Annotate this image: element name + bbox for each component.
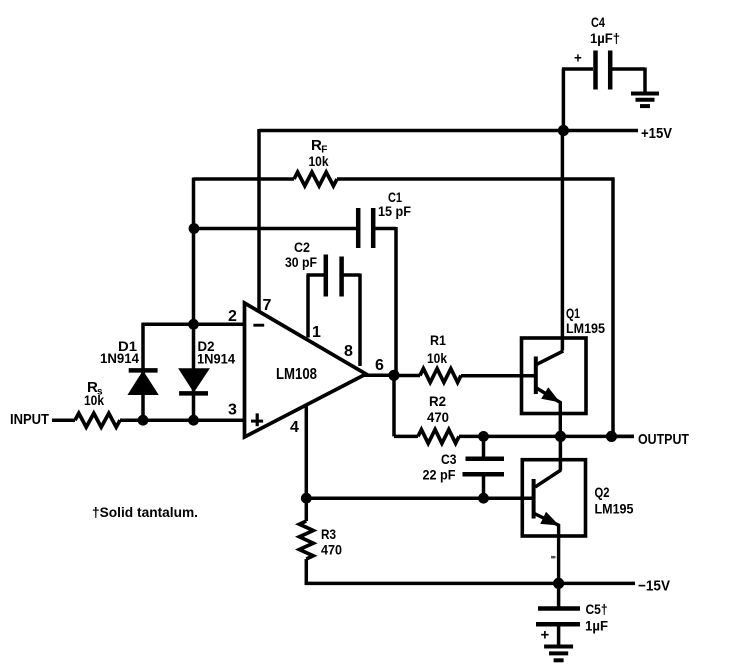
svg-text:22 pF: 22 pF	[423, 467, 456, 483]
junction C3 / pin 4 line	[478, 493, 489, 504]
svg-text:LM195: LM195	[595, 501, 634, 517]
svg-text:6: 6	[375, 357, 384, 374]
wire Q1 emitter	[537, 388, 561, 436]
label R2	[429, 393, 446, 409]
note solid tantalum	[92, 504, 198, 520]
svg-text:Q2: Q2	[595, 484, 610, 500]
wire op-amp output lead	[363, 374, 394, 378]
wire R2 left lead	[394, 435, 418, 439]
value 1N914 of D2	[197, 351, 235, 367]
wire pin 3 rail	[120, 418, 244, 422]
value 1µF† of C4	[590, 30, 620, 46]
capacitor C5	[536, 609, 580, 625]
wire C1 left lead	[194, 227, 356, 231]
capacitor C4	[596, 51, 611, 90]
svg-text:+15V: +15V	[641, 125, 672, 142]
svg-text:LM195: LM195	[566, 320, 605, 336]
label D2	[198, 338, 215, 354]
wire pin 2 rail	[142, 323, 245, 327]
net -15V label	[638, 578, 670, 595]
wire C5 top lead	[557, 583, 561, 607]
label Q1	[566, 305, 580, 321]
capacitor C2	[326, 255, 342, 297]
wire pin 8 lead	[344, 274, 361, 367]
label RF	[311, 137, 327, 156]
svg-text:470: 470	[321, 542, 342, 558]
wire inverting node vertical	[192, 178, 196, 326]
label OUTPUT	[638, 431, 689, 448]
svg-text:C3: C3	[441, 451, 457, 467]
wire +15V supply rail	[259, 129, 638, 133]
capacitor C1	[358, 208, 373, 248]
transistor Q1	[522, 338, 587, 414]
pin 7 label	[263, 297, 272, 314]
wire input lead	[52, 418, 75, 422]
wire RF left segment	[194, 177, 294, 181]
wire pin 1 lead	[307, 275, 325, 338]
svg-text:R3: R3	[321, 526, 336, 542]
wire C4 right lead	[612, 68, 645, 94]
transistor Q2	[522, 460, 585, 536]
svg-text:C5†: C5†	[586, 601, 608, 617]
wire C3 bottom lead	[482, 476, 486, 498]
pin 3 label	[228, 402, 237, 419]
wire C1 right lead	[375, 227, 396, 375]
capacitor C3	[463, 459, 505, 474]
junction +15V / C4 / Q1 collector	[558, 125, 569, 136]
label C5†	[586, 601, 608, 617]
value LM195 of Q1	[566, 320, 605, 336]
svg-text:10k: 10k	[427, 350, 447, 366]
svg-text:R1: R1	[430, 332, 446, 348]
value 10k of R1	[427, 350, 447, 366]
pin 4 label	[290, 419, 299, 436]
svg-text:10k: 10k	[84, 392, 104, 408]
diode D2	[179, 324, 208, 420]
wire R1 to Q1 base	[461, 374, 536, 378]
value 1µF of C5	[585, 618, 608, 634]
wire V+ down to op-amp pin 7	[257, 129, 261, 311]
wire R2 to output rail	[459, 435, 634, 439]
value 30 pF of C2	[285, 254, 317, 270]
wire Q2 collector	[535, 436, 561, 487]
label D1	[118, 338, 137, 354]
value 15 pF of C1	[378, 203, 411, 219]
junction output / feedback	[606, 431, 617, 442]
wire R3 top lead	[305, 498, 309, 521]
op-amp U1 LM108	[245, 303, 367, 437]
svg-text:2: 2	[228, 308, 237, 325]
value 10k of Rs	[84, 392, 104, 408]
wire feedback vertical to output	[611, 178, 615, 437]
label Rs	[87, 379, 103, 398]
label INPUT	[10, 411, 49, 428]
diode D1	[129, 323, 158, 420]
svg-text:R2: R2	[429, 393, 446, 409]
svg-text:†Solid tantalum.: †Solid tantalum.	[92, 504, 198, 520]
junction -15V / Q2 emitter / C5	[553, 578, 564, 589]
resistor Rs	[75, 413, 120, 427]
wire C4 left lead	[562, 69, 593, 131]
svg-text:C2: C2	[294, 239, 310, 255]
svg-text:30 pF: 30 pF	[285, 254, 317, 270]
label C4	[591, 14, 605, 30]
label C2	[294, 239, 310, 255]
svg-text:+: +	[574, 51, 582, 66]
label R3	[321, 526, 336, 542]
resistor R1	[420, 369, 461, 383]
svg-text:OUTPUT: OUTPUT	[638, 431, 689, 448]
label C3	[441, 451, 457, 467]
wire pin 4 lead	[305, 404, 309, 499]
value 10k of RF	[309, 153, 329, 169]
ground C5	[544, 647, 573, 661]
polarity + of C5	[541, 627, 550, 644]
wire R1 left lead	[394, 374, 420, 378]
svg-text:1µF: 1µF	[585, 618, 608, 634]
svg-text:Q1: Q1	[566, 305, 580, 321]
svg-text:C4: C4	[591, 14, 605, 30]
wire C5 bottom lead	[557, 626, 561, 646]
wire pin 4 rail to Q2 base	[306, 496, 533, 500]
svg-text:10k: 10k	[309, 153, 329, 169]
label Q2	[595, 484, 610, 500]
junction pin 4 / R3	[301, 493, 312, 504]
wire Q1 collector	[537, 131, 564, 365]
svg-text:1µF†: 1µF†	[590, 30, 620, 46]
svg-text:3: 3	[228, 402, 237, 419]
value 22 pF of C3	[423, 467, 456, 483]
pin 8 label	[344, 343, 353, 360]
svg-text:8: 8	[344, 343, 353, 360]
svg-text:+: +	[541, 627, 550, 644]
label C1	[388, 189, 402, 205]
pin 6 label	[375, 357, 384, 374]
pin 1 label	[312, 324, 321, 341]
op-amp plus sign	[251, 413, 263, 426]
resistor RF	[294, 172, 337, 186]
junction feedback node / C1	[189, 223, 200, 234]
label R1	[430, 332, 446, 348]
resistor R3	[299, 521, 313, 559]
wire output node vertical	[392, 375, 396, 436]
stray mark near Q2 emitter	[551, 556, 556, 559]
pin 2 label	[228, 308, 237, 325]
net +15V label	[641, 125, 672, 142]
svg-text:INPUT: INPUT	[10, 411, 49, 428]
wire Q2 emitter	[534, 513, 558, 584]
svg-text:15 pF: 15 pF	[378, 203, 411, 219]
svg-text:1: 1	[312, 324, 321, 341]
junction Rs / D1	[138, 415, 149, 426]
value 1N914 of D1	[100, 350, 139, 366]
ground C4	[631, 94, 659, 107]
junction R2 / C3	[478, 431, 489, 442]
junction op-amp output node	[388, 370, 399, 381]
svg-text:1N914: 1N914	[197, 351, 235, 367]
value LM195 of Q2	[595, 501, 634, 517]
svg-text:LM108: LM108	[276, 366, 317, 383]
wire C3 top lead	[482, 436, 486, 457]
label LM108	[276, 366, 317, 383]
value 470 of R3	[321, 542, 342, 558]
wire RF right segment	[337, 177, 615, 181]
svg-text:−15V: −15V	[638, 578, 670, 595]
op-amp minus sign	[253, 324, 264, 327]
junction inverting input node	[188, 319, 199, 330]
svg-text:4: 4	[290, 419, 299, 436]
svg-text:1N914: 1N914	[100, 350, 139, 366]
value 470 of R2	[427, 409, 449, 425]
wire output stub	[612, 435, 635, 439]
polarity + of C4	[574, 51, 582, 66]
svg-text:470: 470	[427, 409, 449, 425]
junction output / Q1 emitter / Q2 collector	[555, 431, 566, 442]
resistor R2	[418, 430, 459, 444]
wire R3 bottom lead	[305, 559, 309, 585]
svg-text:7: 7	[263, 297, 272, 314]
junction D2 / pin 3	[188, 415, 199, 426]
wire -15V supply rail	[305, 582, 635, 586]
